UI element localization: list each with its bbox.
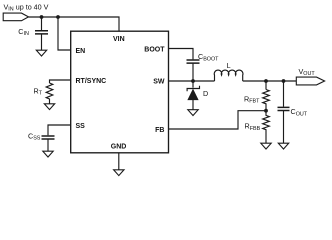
- svg-text:CBOOT: CBOOT: [198, 52, 219, 62]
- svg-text:RFBT: RFBT: [244, 94, 260, 104]
- svg-text:SS: SS: [76, 123, 86, 130]
- svg-text:SW: SW: [153, 78, 165, 85]
- svg-text:L: L: [227, 61, 231, 70]
- svg-text:VIN: VIN: [113, 36, 125, 43]
- svg-text:BOOT: BOOT: [144, 46, 165, 53]
- svg-text:D: D: [203, 89, 208, 98]
- svg-text:FB: FB: [155, 127, 164, 134]
- svg-text:CIN: CIN: [18, 27, 29, 37]
- svg-text:RT: RT: [34, 86, 43, 96]
- svg-text:RT/SYNC: RT/SYNC: [76, 78, 107, 85]
- svg-text:COUT: COUT: [291, 107, 308, 117]
- svg-text:GND: GND: [111, 144, 127, 151]
- svg-text:RFBB: RFBB: [245, 122, 261, 132]
- svg-text:CSS: CSS: [28, 131, 41, 141]
- svg-text:VOUT: VOUT: [299, 67, 316, 77]
- svg-text:VIN up to 40 V: VIN up to 40 V: [4, 2, 49, 12]
- svg-text:EN: EN: [76, 48, 86, 55]
